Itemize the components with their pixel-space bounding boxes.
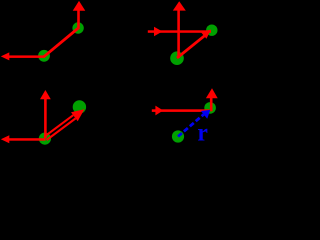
arrow left (BL horizontal vector pointing left) bbox=[1, 135, 46, 143]
arrow C1-C2 double shaft (BL double-line vector) bbox=[44, 109, 84, 140]
arrow B1-B2 (TR diagonal vector with head at B2) bbox=[177, 30, 211, 59]
arrow up (BL vertical vector from C1) bbox=[40, 90, 51, 138]
node C1 (bottom-left panel, lower point) bbox=[39, 133, 51, 145]
node B2 (top-right panel, right point) bbox=[206, 25, 217, 36]
wire A1-A2 (TL diagonal segment) bbox=[44, 28, 78, 57]
arrow up (TL vertical vector from A2) bbox=[73, 1, 86, 29]
node B1 (top-right panel, lower point) bbox=[170, 51, 184, 65]
arrow r dashed (blue position vector D2 to D1) bbox=[178, 110, 210, 137]
node C2 (bottom-left panel, upper point) bbox=[73, 100, 86, 113]
node D2 (bottom-right panel, lower-left point) bbox=[172, 130, 184, 142]
arrow right mid-head (BR horizontal vector) bbox=[152, 106, 210, 116]
arrow right mid-head (TR horizontal vector through axis) bbox=[148, 27, 211, 36]
arrow left (TL horizontal vector pointing left) bbox=[1, 52, 45, 60]
node A1 (top-left panel, lower point) bbox=[38, 50, 50, 62]
node D1 (bottom-right panel, corner point) bbox=[204, 102, 216, 114]
arrow up (TR vertical vector from B1) bbox=[173, 1, 186, 58]
node A2 (top-left panel, upper point) bbox=[72, 22, 83, 33]
arrow up (BR vertical vector at D1) bbox=[206, 88, 218, 111]
svg-text:r: r bbox=[197, 119, 208, 145]
